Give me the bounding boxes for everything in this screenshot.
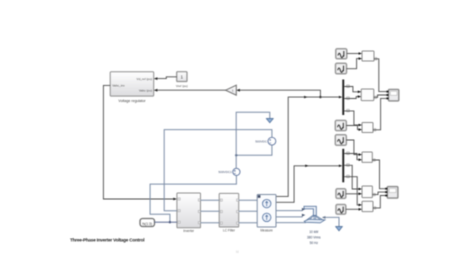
wire constant to regulator Vd_ref input <box>154 77 177 80</box>
subsystem U1 Voltage regulator <box>110 72 154 103</box>
wire S3 to M3 input2 <box>346 126 362 131</box>
dc source V1 500VDC <box>255 137 276 145</box>
wire V1 bottom to midpoint junction <box>236 145 272 155</box>
tag label block fs <box>140 219 155 227</box>
svg-text:10 kW: 10 kW <box>309 230 318 234</box>
wire Measure to load phase C <box>276 222 306 224</box>
source block S6 <box>336 205 346 215</box>
wire DC plus rail: V1 top to inverter + input <box>164 130 272 211</box>
constant Vref (pu) value 1 <box>176 72 188 89</box>
source block S1 <box>336 49 347 59</box>
demux2 tap tick 2 <box>347 164 350 167</box>
source block S4 <box>335 135 346 146</box>
block M3 <box>362 123 373 133</box>
wire demux1 out1 to M2 input1 <box>344 87 361 94</box>
wire S5 to M5 input2 <box>346 193 362 196</box>
svg-text:M: M <box>236 250 239 254</box>
demux2 bus bar <box>342 149 344 183</box>
wire demux1 out2 to M2 input2 <box>344 95 361 98</box>
wire demux2 out1 to M4 input2 <box>344 154 362 162</box>
wire inverter to LC filter phase C <box>201 222 220 224</box>
svg-text:Measure: Measure <box>260 229 273 233</box>
wire Measure to load phase A <box>276 208 305 211</box>
wire inverter to LC filter phase A <box>201 199 220 201</box>
subsystem Measure <box>257 195 276 233</box>
wire M3 output to Scope1 input3 <box>373 98 386 129</box>
svg-text:Three-Phase Inverter Voltage C: Three-Phase Inverter Voltage Control <box>70 237 145 242</box>
ground G1 at load <box>336 227 343 231</box>
source block S3 <box>335 120 346 130</box>
svg-text:Vd_ref (pu): Vd_ref (pu) <box>137 77 152 81</box>
node junction DC midpoint <box>235 154 237 156</box>
wire M4 output to Scope2 input1 <box>372 160 385 189</box>
wire S4 to M4 input1 <box>346 140 362 156</box>
wire M1 output to Scope1 input1 <box>374 59 386 92</box>
port tick M2 out <box>374 96 376 98</box>
svg-text:Vref (pu): Vref (pu) <box>176 84 188 88</box>
wire load neutral to ground <box>322 216 339 227</box>
demux1 tap tick 3 <box>347 109 350 112</box>
block M1 <box>362 51 374 61</box>
wire Measure Vabc signal to demux1 <box>276 96 342 197</box>
wire midpoint junction up and over to ground G2 <box>236 112 270 155</box>
port tick M4 out <box>373 159 375 161</box>
demux1 bus bar <box>342 80 344 116</box>
wire S6 to M6 input2 <box>346 208 362 211</box>
wire M6 output to Scope2 input3 <box>373 196 385 208</box>
wire midpoint junction down to V2 top <box>235 155 237 168</box>
wire inverter to LC filter phase B <box>201 210 220 212</box>
port tick M3 out <box>373 129 375 131</box>
demux1 tap tick 1 <box>347 85 350 88</box>
subsystem LC Filter <box>219 193 239 232</box>
block M5 <box>362 186 372 198</box>
wire demux1 out3 to M3 input1 <box>344 111 362 126</box>
svg-text:50 Hz: 50 Hz <box>310 241 319 245</box>
svg-text:500VDC: 500VDC <box>255 140 267 144</box>
wire Measure to load phase B <box>276 214 305 217</box>
wire DC minus rail: V2 bottom to inverter - input <box>150 176 236 223</box>
wire LC filter to Measure phase C <box>239 222 258 224</box>
block M2 <box>361 89 374 101</box>
svg-text:Voltage regulator: Voltage regulator <box>118 99 146 103</box>
port tick M1 out <box>374 58 376 60</box>
wire S2 to M1 input2 <box>347 57 363 68</box>
wire M2 output to Scope1 input2 <box>374 95 387 97</box>
gain K (flipped, points left) <box>226 85 240 95</box>
svg-text:Vabc_inv: Vabc_inv <box>112 84 125 88</box>
load three-phase RLC 10kW <box>304 206 325 245</box>
source block S5 <box>336 189 346 199</box>
wire LC filter to Measure phase B <box>239 210 258 212</box>
wire junction to inverter minus port <box>170 221 177 223</box>
wire regulator output Vabc_inv down to inverter gate input <box>103 85 176 200</box>
source block S2 <box>336 63 347 74</box>
svg-text:LC Filter: LC Filter <box>223 229 236 233</box>
wire demux2 out2 to M5 input1 <box>344 165 362 190</box>
demux2 tap tick 3 <box>347 175 350 178</box>
ground G2 midpoint <box>266 119 273 123</box>
scope Scope1 <box>386 89 399 101</box>
demux2 tap tick 1 <box>347 152 350 155</box>
block M6 <box>362 201 373 211</box>
node junction at inverter minus input <box>169 221 171 223</box>
wire Measure Iabc signal to demux2 <box>276 165 342 203</box>
scope Scope2 <box>385 187 398 199</box>
svg-text:Inverter: Inverter <box>183 229 195 233</box>
wire M5 output to Scope2 input2 <box>372 192 385 195</box>
wire demux2 out3 to M6 input1 <box>344 177 362 207</box>
wire gain output to regulator Vabc input <box>154 89 226 92</box>
svg-text:380 Vrms: 380 Vrms <box>307 236 321 240</box>
wire tag block to junction <box>155 221 170 223</box>
wire LC filter to Measure phase A <box>239 199 258 201</box>
svg-text:fs(1:3): fs(1:3) <box>142 222 152 226</box>
port tick M5 out <box>373 193 375 195</box>
svg-text:Vabc (pu): Vabc (pu) <box>139 88 152 92</box>
demux1 tap tick 2 <box>347 97 350 100</box>
wire S1 to M1 input1 <box>347 52 362 55</box>
svg-text:500VDC1: 500VDC1 <box>218 170 232 174</box>
node junction feedback tap <box>319 96 321 98</box>
block M4 <box>362 152 372 162</box>
dc source V2 500VDC1 <box>218 168 240 175</box>
port tick M6 out <box>373 207 375 209</box>
subsystem Inverter <box>177 193 201 233</box>
wire feedback tap to gain input <box>240 90 321 97</box>
